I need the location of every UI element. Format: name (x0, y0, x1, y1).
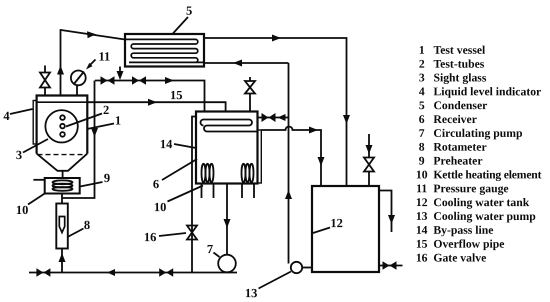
svg-text:2: 2 (103, 103, 109, 117)
tank inlet valve stem (368, 134, 370, 186)
receiver level indicator (258, 130, 262, 183)
test vessel V1 body (37, 96, 88, 154)
receiver coil outlet to tank (261, 127, 321, 186)
arrow down overflow (388, 215, 395, 224)
wire cooling riser from pump13 (288, 63, 290, 264)
svg-text:12: 12 (330, 216, 343, 230)
cooling water pump P13 (291, 262, 302, 273)
pressure gauge stem (76, 85, 78, 95)
svg-text:7: 7 (207, 242, 213, 256)
svg-text:14: 14 (416, 224, 428, 237)
arrow down inlet (366, 145, 373, 154)
label 9 leader (80, 182, 103, 187)
svg-text:10: 10 (154, 200, 167, 214)
receiver drain to pump7 (226, 184, 228, 256)
svg-text:Cooling water pump: Cooling water pump (433, 210, 536, 223)
receiver relief valve stem (249, 77, 251, 112)
arrow right valve line (165, 77, 174, 84)
arrow down drain (117, 71, 124, 80)
svg-text:Circulating pump: Circulating pump (433, 127, 523, 140)
svg-text:Pressure gauge: Pressure gauge (433, 182, 508, 195)
svg-text:7: 7 (419, 127, 425, 140)
receiver coil (204, 120, 258, 132)
condensate valve line (95, 81, 205, 112)
label 7 leader (214, 253, 220, 258)
tank inlet valve (364, 158, 374, 165)
label 6 leader (162, 159, 197, 180)
svg-text:12: 12 (416, 196, 428, 209)
svg-text:15: 15 (416, 238, 428, 251)
element terminals (202, 184, 255, 199)
valve on branch (262, 113, 269, 122)
liquid level indicator L4 (33, 101, 37, 145)
svg-text:Rotameter: Rotameter (433, 141, 486, 154)
svg-text:11: 11 (416, 182, 427, 195)
svg-text:3: 3 (16, 148, 22, 162)
funnel drain pipe (62, 171, 64, 178)
arrow right on top outlet (272, 35, 281, 42)
arrow left on branch (278, 114, 286, 121)
svg-text:4: 4 (419, 85, 425, 98)
preheater P9 body (45, 178, 80, 194)
label 2 leader (66, 114, 102, 127)
arrow right line 15 (148, 99, 157, 106)
arrow right coil outlet (309, 127, 318, 134)
wire cooling return into condenser right (204, 62, 289, 64)
pipe preheater to rotameter (61, 194, 63, 205)
svg-text:11: 11 (98, 50, 110, 64)
bottom main line (29, 272, 237, 274)
overflow pipe tank (379, 191, 392, 233)
valve B (132, 76, 139, 85)
diagram numbers (3, 4, 343, 301)
svg-text:2: 2 (419, 58, 425, 71)
vessel lid line (37, 101, 88, 103)
receiver relief valve (245, 81, 255, 87)
wire vapor line vessel to condenser (61, 30, 126, 96)
arrow down receiver drain (224, 219, 231, 228)
valve bottom-mid (159, 268, 166, 277)
sight glass circle (45, 110, 77, 142)
svg-text:14: 14 (160, 137, 173, 151)
wire return leg left (62, 81, 95, 199)
by-pass line 14 (192, 117, 196, 273)
rotameter float (59, 217, 64, 233)
condenser drain (119, 67, 121, 73)
svg-text:4: 4 (3, 109, 10, 123)
label 16 leader (159, 233, 186, 236)
tank drain valve line (379, 265, 403, 267)
test tubes T2 (60, 115, 65, 120)
safety valve stub on vessel (44, 66, 46, 96)
wire branch to receiver coil inlet (258, 117, 289, 119)
valve A (101, 76, 108, 85)
pressure gauge G11 (71, 71, 86, 86)
cooling water tank T12 (312, 186, 379, 272)
svg-text:6: 6 (419, 113, 425, 126)
arrow left on return (233, 60, 242, 67)
safety valve vessel (40, 73, 50, 81)
label 1 leader (87, 124, 114, 130)
svg-text:Kettle heating element: Kettle heating element (433, 168, 541, 181)
arrow down return leg (91, 128, 98, 137)
heating element E1 (202, 164, 206, 182)
svg-text:Test-tubes: Test-tubes (433, 58, 484, 71)
svg-text:1: 1 (419, 44, 425, 57)
pipe rotameter down (61, 249, 63, 273)
condenser C5 coil (125, 39, 204, 62)
overflow line 15 (87, 102, 225, 111)
svg-text:5: 5 (419, 99, 425, 112)
label 8 leader (68, 229, 84, 238)
arrow vapor right (87, 31, 96, 38)
arrow up into rotameter (59, 253, 66, 262)
dashed liquid level (38, 154, 87, 156)
rotameter R8 body (56, 204, 68, 249)
svg-text:9: 9 (419, 155, 425, 168)
svg-text:16: 16 (416, 251, 428, 264)
preheater stub left (33, 179, 44, 181)
valve bottom-left (36, 268, 43, 277)
svg-text:10: 10 (416, 168, 428, 181)
svg-text:13: 13 (245, 286, 258, 300)
tank drain valve (383, 261, 390, 270)
label 12 leader (313, 228, 330, 234)
wire condenser top outlet to tank (204, 38, 347, 186)
svg-text:Receiver: Receiver (433, 113, 476, 126)
arrow up on riser (285, 190, 292, 199)
svg-text:13: 13 (416, 210, 428, 223)
svg-text:9: 9 (104, 171, 110, 185)
svg-text:Gate valve: Gate valve (433, 251, 486, 264)
label 14 leader (174, 144, 196, 148)
label 5 leader (172, 17, 188, 35)
preheater coil (53, 180, 73, 184)
label 11 arrow leader (90, 60, 96, 66)
svg-text:5: 5 (186, 4, 192, 18)
svg-text:By-pass line: By-pass line (433, 224, 493, 237)
gate valve 16 (187, 226, 197, 233)
svg-text:10: 10 (16, 203, 29, 217)
svg-text:Cooling water tank: Cooling water tank (433, 196, 529, 209)
label 10 right leader (168, 186, 204, 202)
legend (416, 44, 542, 265)
svg-text:Liquid level indicator: Liquid level indicator (433, 85, 541, 98)
svg-text:Preheater: Preheater (433, 155, 482, 168)
arrow left bottom line (107, 269, 115, 276)
receiver R6 body (196, 112, 258, 184)
arrow down into tank (318, 157, 325, 166)
circulating pump P7 (218, 255, 236, 273)
svg-text:1: 1 (115, 114, 121, 128)
svg-text:15: 15 (170, 88, 183, 102)
label 10 left leader (28, 194, 45, 205)
arrow up on vapor stub (57, 66, 64, 75)
svg-text:16: 16 (144, 230, 157, 244)
label 3 leader (23, 139, 48, 153)
svg-text:Test vessel: Test vessel (433, 44, 486, 57)
gauge needle (74, 72, 85, 85)
svg-text:Condenser: Condenser (433, 99, 487, 112)
svg-text:8: 8 (419, 141, 425, 154)
svg-text:Overflow pipe: Overflow pipe (433, 238, 504, 251)
condenser C5 body (125, 34, 204, 67)
svg-text:3: 3 (419, 71, 425, 84)
arrow down on tank feed (343, 115, 350, 124)
label 4 leader (10, 109, 33, 114)
svg-text:6: 6 (153, 177, 159, 191)
pump13 suction from tank (302, 267, 312, 269)
label 13 leader (259, 272, 292, 289)
svg-text:Sight glass: Sight glass (433, 71, 486, 84)
heating element E2 (242, 164, 246, 182)
svg-text:8: 8 (84, 218, 90, 232)
vessel funnel (37, 154, 88, 171)
